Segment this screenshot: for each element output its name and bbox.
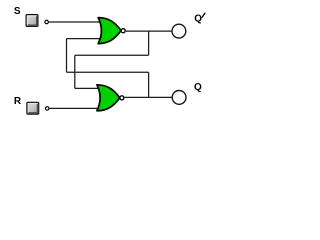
svg-text:Q: Q: [194, 13, 202, 24]
svg-text:Q: Q: [194, 82, 202, 93]
svg-text:R: R: [14, 96, 22, 107]
svg-text:S: S: [14, 6, 21, 17]
